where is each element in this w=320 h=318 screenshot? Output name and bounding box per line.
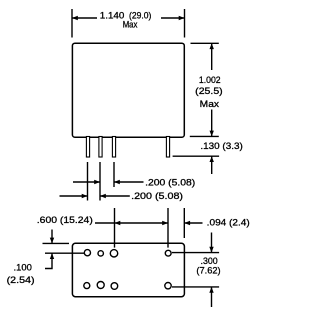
svg-text:.200 (5.08): .200 (5.08) (131, 191, 183, 202)
extension line top of 1.002 dim (191, 42, 219, 44)
pin hole 7 bottom row (111, 283, 118, 290)
extension line top edge level of .100 dim (43, 242, 70, 244)
pin hole 3 top row (110, 250, 117, 257)
svg-text:Max: Max (123, 20, 138, 31)
svg-text:.100: .100 (14, 263, 32, 274)
svg-text:.130 (3.3): .130 (3.3) (200, 141, 242, 152)
extension line pin tip level of .130 dim (173, 155, 220, 157)
dimension line 1.140 left segment (72, 17, 97, 19)
svg-text:(25.5): (25.5) (195, 86, 223, 97)
arrowhead .200 row2 left (82, 194, 88, 198)
extension line below pin 2 (99, 162, 101, 201)
extension line left of 1.140 dim (71, 9, 73, 38)
pin 4 (top view) (166, 137, 169, 158)
dimension line .200 row1 right part (114, 181, 144, 183)
dimension arrow line above .300 dim (211, 233, 213, 253)
dimension line 1.140 right segment (161, 17, 185, 19)
dimension line .200 row1 left part (73, 181, 100, 183)
arrowhead 1.002 bottom (210, 131, 214, 137)
pin hole 2 top row (98, 251, 103, 256)
extension line bottom of 1.002 dim (190, 135, 219, 137)
svg-text:.200 (5.08): .200 (5.08) (145, 177, 195, 188)
extension line top row level of .300 dim (172, 252, 219, 254)
arrowhead .130 bottom up (210, 156, 214, 162)
svg-text:Max: Max (200, 99, 220, 110)
pin hole 4 top row (165, 250, 171, 256)
dimension line .094 tail (184, 222, 202, 224)
arrowhead .600 left (115, 221, 121, 225)
extension line above hole col4 for .600 dim (167, 208, 169, 248)
arrowhead .200 row1 left (94, 180, 100, 184)
pin hole 5 bottom row (84, 283, 90, 289)
pin 1 (top view) (86, 137, 89, 158)
dimension line .200 row2 left part (60, 195, 88, 197)
package body bottom view (72, 243, 184, 296)
extension line bottom row level of .300 dim (172, 286, 219, 288)
arrowhead .200 row2 right (100, 194, 106, 198)
arrowhead .300 bottom up (209, 287, 213, 293)
dimension arrow line below .130 dim (211, 156, 213, 174)
arrowhead 1.140 right (179, 16, 185, 20)
extension line right of 1.140 dim (184, 9, 186, 38)
dimension arrow line above .100 dim (51, 230, 53, 244)
package body top view (72, 43, 184, 137)
arrowhead .600 right (162, 221, 168, 225)
extension line below pin 3 (113, 162, 115, 187)
arrowhead 1.140 left (72, 16, 78, 20)
arrowhead .200 row1 right (114, 180, 120, 184)
extension line below pin 1 (87, 162, 89, 201)
arrowhead 1.002 top (210, 43, 214, 49)
extension line hole row level of .100 dim (45, 252, 85, 254)
svg-text:1.002: 1.002 (199, 75, 221, 86)
arrowhead .300 top down (209, 247, 213, 253)
arrowhead .100 bottom up (50, 253, 54, 259)
dimension line .200 row2 right part (100, 195, 130, 197)
dimension line 1.002 bottom segment (211, 110, 213, 137)
dimension line .600 with tail (95, 222, 168, 224)
dimension line 1.002 top segment (211, 43, 213, 70)
svg-text:(2.54): (2.54) (7, 275, 35, 286)
svg-text:(7.62): (7.62) (196, 266, 220, 277)
pin 3 (top view) (112, 137, 115, 158)
svg-text:.600 (15.24): .600 (15.24) (37, 215, 93, 226)
dimension arrow line below .100 dim with jog (45, 253, 52, 268)
svg-text:.094 (2.4): .094 (2.4) (207, 218, 250, 229)
pin hole 1 top row (84, 250, 90, 256)
arrowhead .094 left (184, 221, 190, 225)
svg-text:1.140: 1.140 (100, 11, 125, 22)
dimension arrow line below .300 dim (211, 287, 213, 307)
pin hole 6 bottom row (97, 282, 104, 289)
extension line above right edge for .094 dim (183, 208, 185, 238)
extension line above hole col3 for .600 dim (114, 208, 116, 248)
pin 2 (top view) (99, 137, 102, 158)
pin hole 8 bottom row (165, 283, 171, 289)
arrowhead .100 top down (50, 238, 54, 244)
